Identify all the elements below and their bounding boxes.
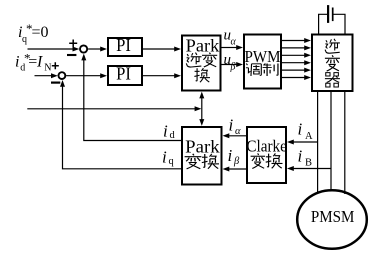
svg-text:i: i: [228, 146, 233, 165]
svg-text:PI: PI: [116, 35, 131, 55]
svg-text:Clarke: Clarke: [246, 137, 287, 156]
svg-text:=0: =0: [32, 24, 49, 41]
svg-text:=: =: [28, 54, 37, 71]
svg-text:β: β: [233, 156, 240, 167]
svg-text:i: i: [298, 120, 303, 139]
svg-text:β: β: [230, 62, 236, 73]
svg-text:i: i: [162, 148, 167, 167]
svg-text:Park: Park: [186, 36, 220, 56]
svg-text:PWM: PWM: [245, 47, 281, 66]
svg-text:I: I: [36, 54, 43, 71]
svg-text:i: i: [15, 54, 19, 71]
svg-text:i: i: [298, 146, 303, 165]
svg-text:PMSM: PMSM: [311, 207, 355, 226]
svg-text:q: q: [169, 156, 175, 167]
svg-text:i: i: [163, 122, 168, 141]
svg-text:N: N: [44, 62, 51, 73]
svg-text:α: α: [235, 126, 241, 137]
svg-text:Park: Park: [185, 137, 220, 157]
svg-text:A: A: [305, 131, 313, 142]
svg-text:d: d: [170, 130, 176, 141]
svg-text:α: α: [231, 37, 237, 48]
svg-text:i: i: [229, 116, 234, 135]
svg-text:B: B: [305, 158, 312, 169]
svg-text:PI: PI: [116, 64, 131, 84]
